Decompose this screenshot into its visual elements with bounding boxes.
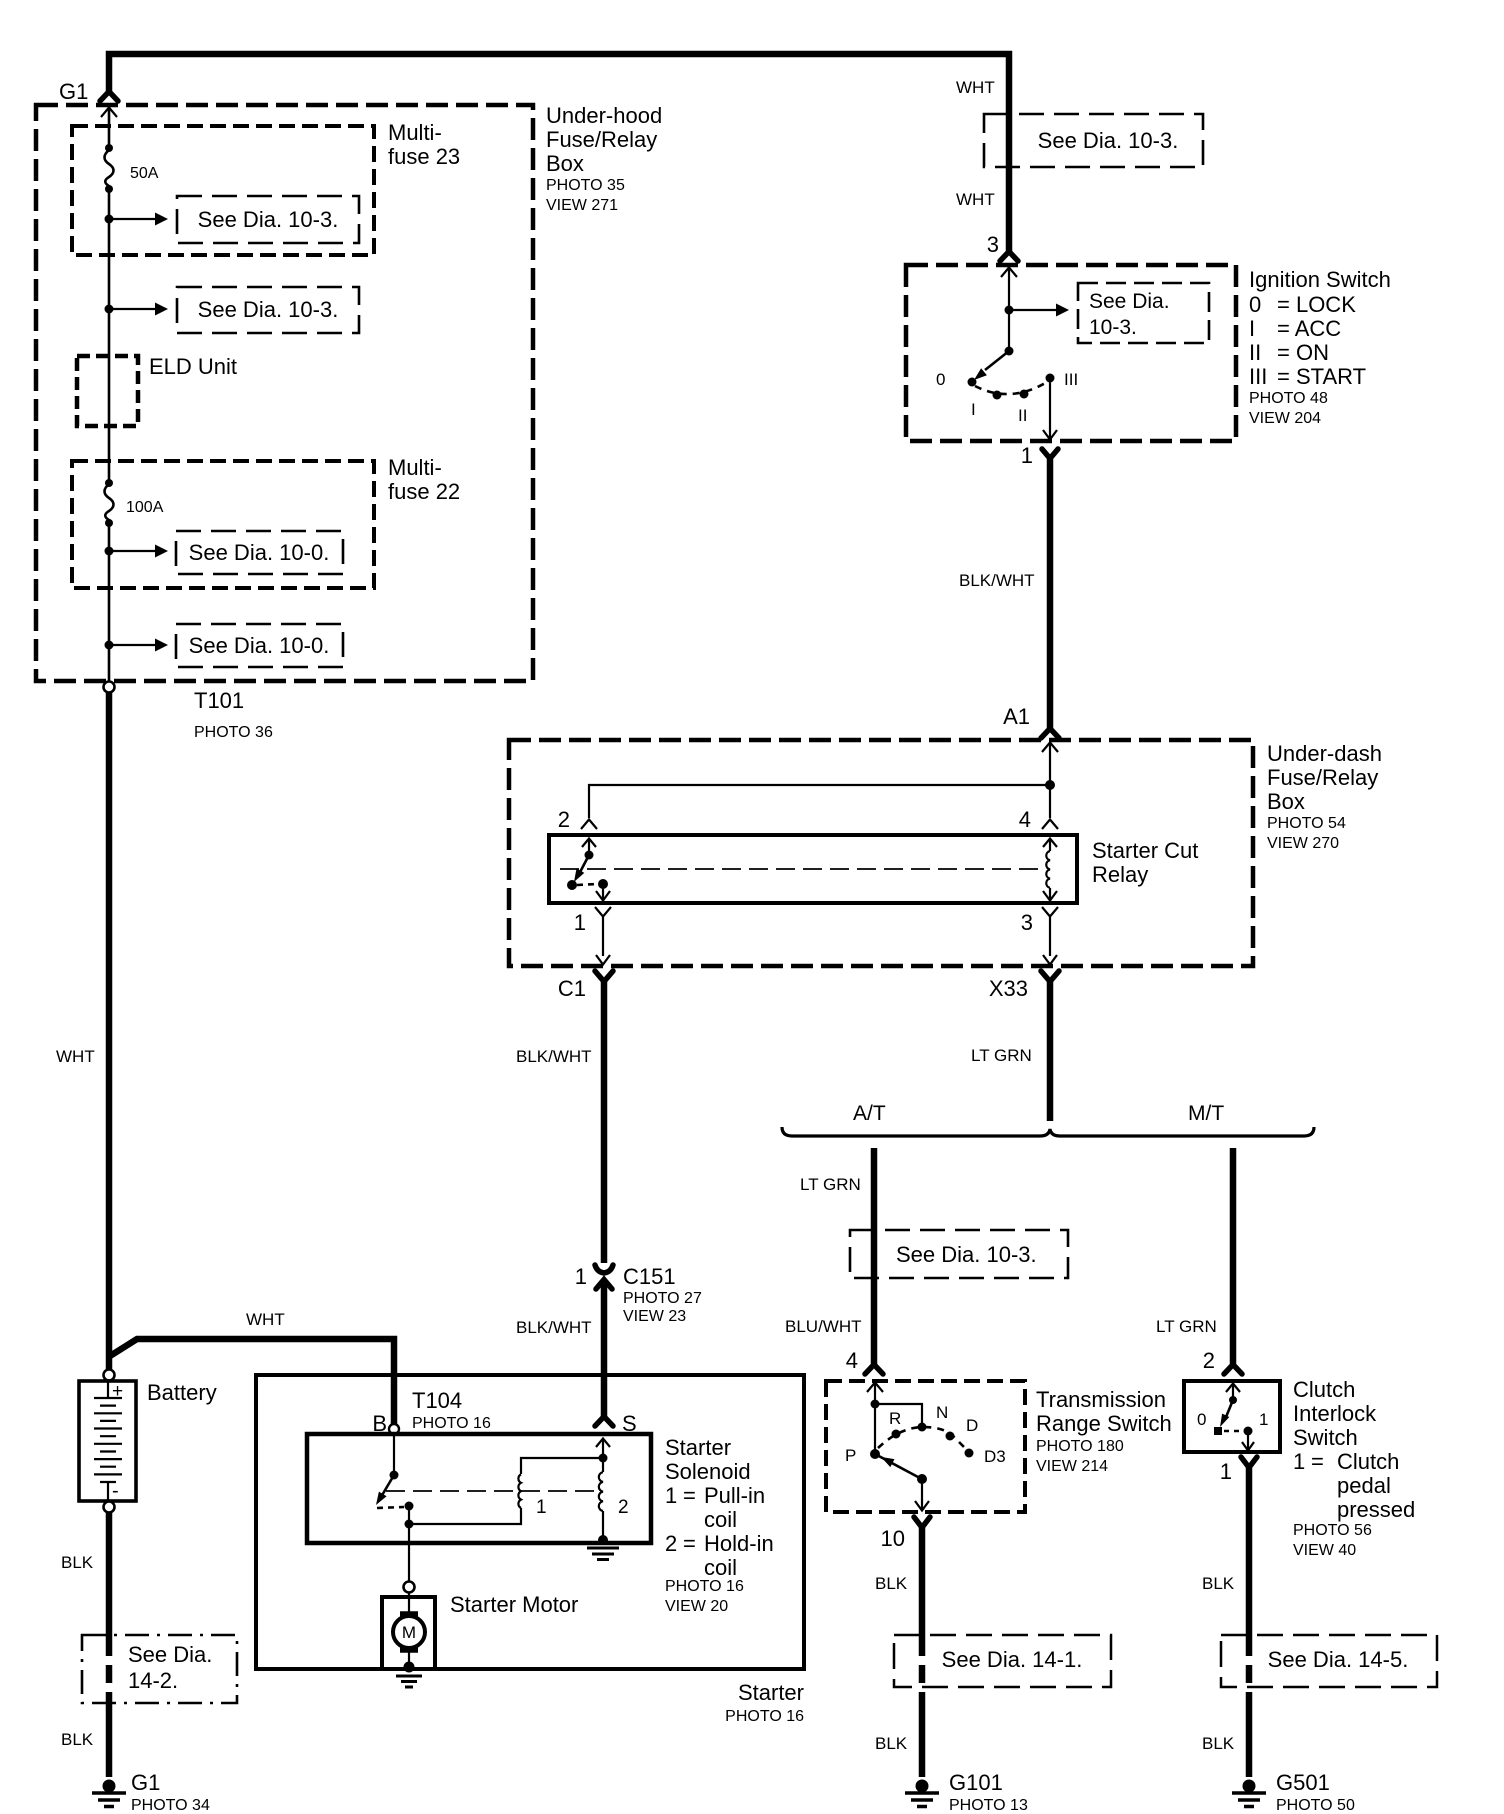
wire: LT GRN M/T branch — [1230, 1148, 1237, 1364]
connector chevron at S terminal — [595, 1417, 613, 1427]
battery negative terminal circle — [104, 1502, 115, 1513]
wire: feed inside under-hood box (vertical) — [108, 107, 111, 682]
svg-text:Starter: Starter — [738, 1680, 804, 1705]
svg-text:1: 1 — [536, 1497, 547, 1518]
solenoid switch contact from B — [393, 1434, 395, 1472]
arrowhead up at A1 inside box — [1042, 743, 1058, 753]
wire: jumper to relay pin 2 — [589, 785, 1050, 818]
node: relay feed junction — [1045, 780, 1055, 790]
svg-text:BLK: BLK — [61, 1730, 94, 1749]
relay coil — [1043, 839, 1057, 848]
ignition rotor pivot — [1005, 347, 1014, 356]
wire: clutch contact 1 to pin 1 — [1247, 1431, 1249, 1449]
svg-text:M: M — [402, 1623, 416, 1642]
svg-text:VIEW 270: VIEW 270 — [1267, 835, 1339, 852]
svg-text:BLK: BLK — [1202, 1734, 1235, 1753]
connector chevron clutch pin 2 — [1224, 1365, 1242, 1375]
wire: branch arrow to See Dia 10-0 (first) — [109, 550, 156, 552]
svg-text:BLK: BLK — [875, 1574, 908, 1593]
svg-text:BLU/WHT: BLU/WHT — [785, 1317, 862, 1336]
svg-text:PHOTO 34: PHOTO 34 — [131, 1797, 210, 1814]
transmission range switch box (dashed) — [826, 1381, 1025, 1512]
svg-text:Starter Motor: Starter Motor — [450, 1592, 578, 1617]
svg-text:1: 1 — [575, 1264, 587, 1289]
svg-text:Starter: Starter — [665, 1435, 731, 1460]
svg-text:Multi-: Multi- — [388, 120, 442, 145]
motor M1 — [393, 1614, 425, 1650]
svg-text:Relay: Relay — [1092, 862, 1148, 887]
svg-text:Range Switch: Range Switch — [1036, 1411, 1172, 1436]
svg-text:+: + — [112, 1381, 123, 1402]
svg-text:III= START: III= START — [1249, 364, 1366, 389]
svg-text:4: 4 — [1019, 807, 1031, 832]
svg-text:See Dia. 10-3.: See Dia. 10-3. — [1038, 128, 1179, 153]
See Dia. 10-0. reference box (first) — [176, 531, 343, 574]
connector chevron TRS pin 10 — [914, 1517, 930, 1528]
svg-text:G501: G501 — [1276, 1770, 1330, 1795]
wire: A1 to relay pin 4 and branch — [1049, 743, 1051, 818]
svg-text:Box: Box — [1267, 789, 1305, 814]
solenoid switch dashed link — [377, 1507, 404, 1508]
solenoid centre dashed link line — [386, 1490, 599, 1492]
svg-text:14-2.: 14-2. — [128, 1668, 178, 1693]
solenoid ground — [587, 1535, 619, 1560]
TRS contact P — [870, 1449, 880, 1459]
node: branch junction to See Dia 10-3 (second) — [105, 305, 114, 314]
hold-in coil 2 — [602, 1458, 604, 1472]
starter motor box — [382, 1597, 435, 1669]
pull-in coil 1 — [518, 1474, 521, 1508]
battery B1 — [79, 1381, 136, 1501]
svg-text:coil: coil — [704, 1507, 737, 1532]
svg-text:See Dia. 14-5.: See Dia. 14-5. — [1268, 1647, 1409, 1672]
svg-text:R: R — [889, 1409, 901, 1428]
svg-text:BLK: BLK — [875, 1734, 908, 1753]
connector chevron at ignition pin 3 — [1000, 252, 1018, 262]
wire: contact III to pin 1 — [1049, 382, 1051, 439]
under-dash fuse/relay box (dashed) — [509, 740, 1253, 966]
svg-text:3: 3 — [1021, 910, 1033, 935]
svg-text:LT GRN: LT GRN — [971, 1046, 1032, 1065]
svg-text:T104: T104 — [412, 1388, 462, 1413]
svg-text:BLK/WHT: BLK/WHT — [516, 1047, 592, 1066]
wire: BLK/WHT ignition to under-dash A1 — [1047, 459, 1054, 729]
multi-fuse 23 box (dashed) — [72, 126, 374, 255]
connector chevron at ignition pin 1 exit — [1042, 449, 1058, 459]
ground G101 — [905, 1780, 939, 1807]
svg-text:0: 0 — [1197, 1410, 1206, 1429]
svg-text:G1: G1 — [131, 1770, 160, 1795]
wire: branch arrow to See Dia 10-3 (second) — [109, 308, 156, 310]
terminal X33 chevron — [1041, 971, 1059, 982]
svg-text:VIEW 40: VIEW 40 — [1293, 1542, 1356, 1559]
svg-text:VIEW 23: VIEW 23 — [623, 1308, 686, 1325]
svg-text:BLK: BLK — [1202, 1574, 1235, 1593]
TRS contact D — [946, 1432, 955, 1441]
svg-text:See Dia.: See Dia. — [128, 1642, 212, 1667]
svg-text:VIEW 204: VIEW 204 — [1249, 410, 1321, 427]
connector chevron at A1 — [1041, 729, 1059, 739]
wire: solenoid switch to pull-in coil — [409, 1506, 521, 1524]
wire: WHT branch from battery feed to starter B terminal — [110, 1339, 394, 1425]
svg-text:pressed: pressed — [1337, 1497, 1415, 1522]
relay pin 3 exit chevron — [1042, 907, 1058, 917]
See Dia. 10-3. reference box (second) — [177, 287, 359, 333]
svg-text:BLK/WHT: BLK/WHT — [959, 571, 1035, 590]
relay centre dashed line — [560, 868, 1044, 870]
See Dia. 14-5. reference box — [1221, 1635, 1437, 1687]
svg-text:10: 10 — [881, 1526, 905, 1551]
TRS contact R — [892, 1430, 901, 1439]
wire: branch arrow to See Dia 10-3 (ignition) — [1009, 309, 1057, 311]
svg-text:100A: 100A — [126, 499, 164, 516]
svg-text:ELD Unit: ELD Unit — [149, 354, 237, 379]
fuse 50A element — [105, 144, 113, 152]
clutch contact 1 — [1244, 1427, 1253, 1436]
See Dia. 10-3. reference box (inside ignition) — [1078, 283, 1209, 343]
See Dia. 10-3. reference box (ignition feed) — [984, 114, 1203, 167]
svg-text:PHOTO 50: PHOTO 50 — [1276, 1797, 1355, 1814]
svg-text:II= ON: II= ON — [1249, 340, 1329, 365]
relay pin1 arrow down — [602, 884, 604, 899]
TRS arrow up inside — [867, 1383, 883, 1393]
TRS wiper blade — [875, 1454, 918, 1477]
ignition contact I — [993, 391, 1002, 400]
svg-text:3: 3 — [987, 232, 999, 257]
svg-text:-: - — [112, 1480, 119, 1502]
svg-text:LT GRN: LT GRN — [800, 1175, 861, 1194]
svg-text:Under-hood: Under-hood — [546, 103, 662, 128]
svg-text:0: 0 — [936, 370, 945, 389]
starter motor ground — [396, 1662, 422, 1688]
A/T M/T splice brace — [782, 1127, 1314, 1136]
svg-text:PHOTO 36: PHOTO 36 — [194, 724, 273, 741]
svg-text:WHT: WHT — [956, 190, 995, 209]
svg-text:PHOTO 13: PHOTO 13 — [949, 1797, 1028, 1814]
wire: LT GRN A/T branch — [871, 1148, 878, 1364]
ignition switch box (dashed) — [906, 265, 1236, 441]
ELD unit box (dashed) — [77, 356, 138, 426]
multi-fuse 22 box (dashed) — [72, 461, 374, 588]
svg-text:Starter Cut: Starter Cut — [1092, 838, 1198, 863]
svg-text:See Dia. 10-0.: See Dia. 10-0. — [189, 540, 330, 565]
svg-text:VIEW 214: VIEW 214 — [1036, 1458, 1108, 1475]
wire: BLK battery ground wire — [106, 1512, 113, 1638]
node: branch junction to See Dia 10-3 (first) — [105, 215, 114, 224]
TRS wiper pivot — [917, 1474, 927, 1484]
svg-text:VIEW 20: VIEW 20 — [665, 1598, 728, 1615]
ignition contact 0 — [968, 378, 977, 387]
svg-text:P: P — [845, 1446, 856, 1465]
node G1: connector chevron at under-hood box entry — [100, 92, 118, 102]
node S junction — [599, 1454, 608, 1463]
svg-text:2: 2 — [558, 807, 570, 832]
svg-text:VIEW 271: VIEW 271 — [546, 197, 618, 214]
wire: branch arrow to See Dia 10-0 (second) — [109, 644, 156, 646]
ignition rotor blade to 0 — [985, 351, 1009, 370]
starter cut relay box — [549, 835, 1077, 903]
svg-text:Fuse/Relay: Fuse/Relay — [1267, 765, 1378, 790]
arrowhead up inside ignition box — [1001, 268, 1017, 278]
TRS contact arc (dashed) — [878, 1427, 968, 1451]
svg-text:Multi-: Multi- — [388, 455, 442, 480]
svg-text:PHOTO 180: PHOTO 180 — [1036, 1438, 1124, 1455]
svg-text:10-3.: 10-3. — [1089, 316, 1137, 339]
connector chevron TRS pin 4 — [865, 1365, 883, 1375]
ignition contact arc (dashed) — [975, 382, 1047, 394]
svg-text:G101: G101 — [949, 1770, 1003, 1795]
svg-text:2: 2 — [618, 1497, 629, 1518]
svg-text:PHOTO 16: PHOTO 16 — [665, 1578, 744, 1595]
svg-text:Under-dash: Under-dash — [1267, 741, 1382, 766]
See Dia. 10-3. reference box (first) — [177, 196, 359, 243]
svg-text:4: 4 — [846, 1348, 858, 1373]
relay pin 1 exit chevron — [595, 907, 611, 917]
svg-text:WHT: WHT — [56, 1047, 95, 1066]
svg-text:PHOTO 54: PHOTO 54 — [1267, 815, 1346, 832]
wire: ignition common feed — [1008, 268, 1010, 351]
svg-text:Switch: Switch — [1293, 1425, 1358, 1450]
connector chevron relay pin 4 — [1042, 820, 1058, 830]
node: branch junction to See Dia 10-0 (first) — [105, 547, 114, 556]
svg-text:T101: T101 — [194, 688, 244, 713]
svg-text:1: 1 — [1220, 1459, 1232, 1484]
wire: TRS wiper to pin 10 — [921, 1479, 923, 1509]
svg-text:See Dia. 10-3.: See Dia. 10-3. — [198, 297, 339, 322]
svg-text:See Dia. 10-3.: See Dia. 10-3. — [198, 207, 339, 232]
svg-text:X33: X33 — [989, 976, 1028, 1001]
battery positive terminal circle — [104, 1370, 115, 1381]
svg-text:Solenoid: Solenoid — [665, 1459, 751, 1484]
svg-text:Box: Box — [546, 151, 584, 176]
ground G1 — [92, 1780, 126, 1807]
svg-text:M/T: M/T — [1188, 1102, 1224, 1125]
wire: main battery feed, top bus from G1 riser to ignition riser — [109, 54, 1009, 251]
node: branch to see dia (ignition) — [1005, 306, 1014, 315]
wire: LT GRN from X33 to A/T-M/T split — [1047, 981, 1054, 1121]
svg-text:Ignition Switch: Ignition Switch — [1249, 267, 1391, 292]
starter assembly box — [256, 1375, 804, 1669]
TRS feed junction — [871, 1400, 880, 1409]
svg-text:See Dia.: See Dia. — [1089, 290, 1170, 313]
svg-text:WHT: WHT — [246, 1310, 285, 1329]
under-hood fuse/relay box (dashed) — [36, 105, 533, 681]
relay switch pivot — [585, 851, 594, 860]
arrow up to S terminal — [602, 1440, 604, 1458]
svg-text:50A: 50A — [130, 165, 159, 182]
svg-text:LT GRN: LT GRN — [1156, 1317, 1217, 1336]
See Dia. 10-0. reference box (second) — [176, 624, 343, 667]
svg-text:PHOTO 48: PHOTO 48 — [1249, 390, 1328, 407]
wire: coil 1 top to S node — [521, 1458, 603, 1474]
wire: BLK/WHT from C151 to S terminal — [601, 1284, 608, 1416]
clutch interlock switch box — [1184, 1381, 1280, 1452]
starter solenoid box — [307, 1434, 651, 1543]
svg-text:Transmission: Transmission — [1036, 1387, 1166, 1412]
wire: solenoid switch output to starter motor — [408, 1524, 410, 1581]
svg-text:D3: D3 — [984, 1447, 1006, 1466]
svg-text:1: 1 — [1259, 1410, 1268, 1429]
clutch switch dashed link — [1224, 1430, 1243, 1433]
svg-text:pedal: pedal — [1337, 1473, 1391, 1498]
wire: coil 2 to solenoid ground — [602, 1511, 604, 1538]
svg-text:See Dia. 10-3.: See Dia. 10-3. — [896, 1242, 1037, 1267]
starter motor terminal circle — [404, 1582, 415, 1593]
svg-text:fuse 22: fuse 22 — [388, 479, 460, 504]
See Dia. 10-3. reference box (A/T branch) — [850, 1230, 1068, 1278]
svg-text:See Dia. 10-0.: See Dia. 10-0. — [189, 633, 330, 658]
svg-text:See Dia. 14-1.: See Dia. 14-1. — [942, 1647, 1083, 1672]
relay contact (pin1 side) — [567, 880, 577, 890]
wire: TRS feed to N contact — [875, 1404, 922, 1423]
connector C151 (in-line) — [595, 1265, 613, 1289]
relay pin2 arrow inside — [582, 839, 596, 848]
ignition contact III — [1046, 374, 1055, 383]
svg-text:C151: C151 — [623, 1264, 676, 1289]
svg-text:coil: coil — [704, 1555, 737, 1580]
TRS contact D3 — [965, 1449, 974, 1458]
svg-text:BLK/WHT: BLK/WHT — [516, 1318, 592, 1337]
wire: TRS feed to P contact — [874, 1404, 876, 1454]
ground G501 — [1232, 1780, 1266, 1807]
solenoid switch blade — [381, 1475, 394, 1497]
svg-text:PHOTO 35: PHOTO 35 — [546, 177, 625, 194]
connector T101 (terminal circle) — [104, 682, 115, 693]
svg-text:PHOTO 16: PHOTO 16 — [412, 1415, 491, 1432]
arrowhead up at under-hood box entry — [101, 108, 117, 118]
clutch switch pivot — [1229, 1396, 1237, 1404]
svg-text:fuse 23: fuse 23 — [388, 144, 460, 169]
svg-text:BLK: BLK — [61, 1553, 94, 1572]
svg-text:PHOTO 56: PHOTO 56 — [1293, 1522, 1372, 1539]
See Dia. 14-2. reference box — [82, 1635, 237, 1703]
svg-text:Fuse/Relay: Fuse/Relay — [546, 127, 657, 152]
svg-text:III: III — [1064, 370, 1078, 389]
svg-text:C1: C1 — [558, 976, 586, 1001]
connector chevron clutch pin 1 — [1241, 1457, 1257, 1468]
wire motor to ground — [408, 1648, 410, 1666]
clutch contact 0 — [1214, 1427, 1222, 1435]
svg-text:1: 1 — [574, 910, 586, 935]
svg-text:S: S — [622, 1411, 637, 1436]
svg-text:A1: A1 — [1003, 704, 1030, 729]
svg-text:Interlock: Interlock — [1293, 1401, 1377, 1426]
ignition contact II — [1020, 390, 1029, 399]
svg-text:G1: G1 — [59, 79, 88, 104]
svg-text:PHOTO 27: PHOTO 27 — [623, 1290, 702, 1307]
svg-text:1: 1 — [1021, 443, 1033, 468]
svg-text:2: 2 — [1203, 1348, 1215, 1373]
svg-text:N: N — [936, 1403, 948, 1422]
fuse 100A element — [105, 479, 113, 487]
wire: WHT main feed from T101 down to battery — [106, 692, 113, 1369]
wire into motor — [408, 1592, 410, 1613]
terminal C1 chevron — [595, 971, 613, 982]
See Dia. 14-1. reference box — [894, 1635, 1111, 1687]
wire: relay pin1 to C1 — [602, 917, 604, 956]
svg-text:WHT: WHT — [956, 78, 995, 97]
clutch arrow up inside — [1226, 1384, 1240, 1393]
relay switch dashed link — [577, 884, 598, 885]
wire: branch arrow to See Dia 10-3 (first) — [109, 218, 156, 220]
relay switch blade — [578, 855, 589, 876]
wire: relay pin3 to X33 — [1049, 917, 1051, 956]
svg-text:Battery: Battery — [147, 1380, 217, 1405]
svg-text:D: D — [966, 1416, 978, 1435]
wire: BLK from clutch to G501 — [1246, 1467, 1253, 1638]
wire: BLK/WHT from C1 to C151 — [601, 981, 608, 1263]
svg-text:II: II — [1018, 406, 1027, 425]
connector chevron relay pin 2 — [581, 820, 597, 830]
svg-text:PHOTO 16: PHOTO 16 — [725, 1708, 804, 1725]
svg-text:A/T: A/T — [853, 1102, 886, 1125]
svg-text:I: I — [971, 400, 976, 419]
svg-text:Clutch: Clutch — [1293, 1377, 1355, 1402]
wire: BLK from TRS to G101 — [919, 1527, 926, 1638]
TRS contact N — [918, 1423, 927, 1432]
clutch switch blade — [1226, 1400, 1233, 1417]
node: branch junction to See Dia 10-0 (second) — [105, 641, 114, 650]
terminal B circle — [389, 1424, 399, 1434]
